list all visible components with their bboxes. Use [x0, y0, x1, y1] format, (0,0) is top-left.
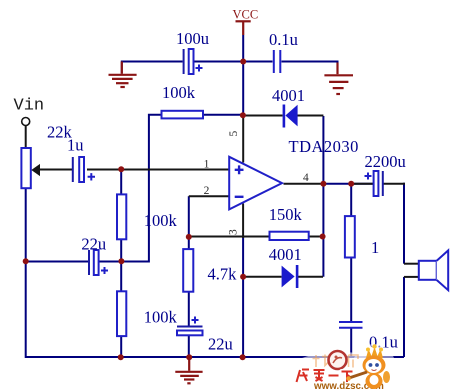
svg-text:1u: 1u: [67, 136, 84, 155]
svg-text:VCC: VCC: [233, 8, 259, 22]
svg-text:Vin: Vin: [14, 97, 45, 116]
svg-text:100u: 100u: [176, 29, 209, 48]
svg-text:100k: 100k: [162, 83, 196, 102]
svg-text:1: 1: [204, 158, 210, 170]
svg-text:150k: 150k: [269, 205, 303, 224]
svg-text:4001: 4001: [269, 245, 302, 264]
svg-text:100k: 100k: [144, 308, 178, 327]
svg-text:2200u: 2200u: [365, 152, 406, 171]
svg-text:4001: 4001: [272, 86, 305, 105]
svg-text:100k: 100k: [144, 211, 178, 230]
svg-text:0.1u: 0.1u: [269, 30, 298, 49]
svg-text:1: 1: [371, 238, 379, 257]
svg-text:3: 3: [228, 229, 240, 235]
svg-text:2: 2: [204, 185, 210, 197]
svg-text:TDA2030: TDA2030: [289, 137, 359, 156]
svg-text:4.7k: 4.7k: [208, 265, 238, 284]
svg-text:5: 5: [228, 131, 240, 137]
svg-text:22u: 22u: [81, 235, 106, 254]
svg-text:22u: 22u: [208, 335, 233, 354]
svg-text:4: 4: [303, 172, 309, 184]
